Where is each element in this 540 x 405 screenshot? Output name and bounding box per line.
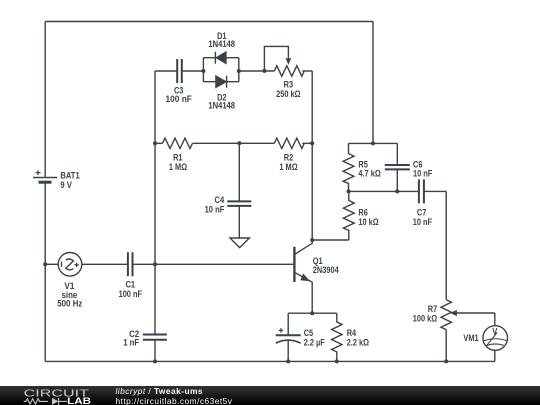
wire R6 bottom to collector node [312,239,349,241]
junction C6 bottom [395,189,399,193]
wire C3 to diode box [182,70,203,72]
wire V1 to C1 [82,263,128,265]
footer bar [0,386,540,405]
wire right riser to R5 row [372,22,374,144]
source V1 [58,252,82,276]
svg-text:R1: R1 [173,152,183,162]
junction Q1 emitter node [310,311,314,315]
svg-text:100 nF: 100 nF [166,94,193,104]
wire R3 right [302,70,312,72]
wire C4 branch top [238,143,240,201]
svg-text:2.2 kΩ: 2.2 kΩ [347,337,369,347]
potentiometer R3 [274,66,304,76]
svg-text:10 nF: 10 nF [413,168,433,178]
wire C6 stubs [396,143,398,191]
junction V1 tap on left rail [43,262,47,266]
svg-text:9 V: 9 V [60,180,72,190]
svg-text:4.7 kΩ: 4.7 kΩ [358,168,380,178]
junction R7 bottom rail [444,359,448,363]
svg-text:2N3904: 2N3904 [313,265,339,275]
diode D1 [215,52,226,64]
capacitor C3 [177,59,182,83]
junction R4 bottom rail [335,359,339,363]
junction R2 right / riser [310,141,314,145]
wire V1 row left [45,263,58,265]
wire riser C7 to R7 [445,191,447,299]
svg-text:R7: R7 [428,304,438,314]
voltmeter VM1 [483,326,508,351]
arrow R7 wiper [450,310,457,316]
footer text libcrypt / Tweak-ums and url [116,386,233,405]
junction C2 bottom rail [153,359,157,363]
svg-text:R2: R2 [284,152,294,162]
capacitor C5 [276,313,301,361]
battery BAT1 [33,170,57,182]
wire left rail lower [44,184,46,362]
svg-text:100 kΩ: 100 kΩ [413,314,437,324]
resistor R1 [163,138,193,148]
potentiometer R7 [441,300,451,330]
wire R7 bottom [445,330,447,362]
svg-text:V: V [492,327,498,338]
wire emitter row [288,312,337,314]
wire R7 wiper lead [457,312,495,314]
wire bottom rail [45,360,495,362]
wire VM1 top stub [494,313,496,326]
ground [230,238,249,248]
wire top rail [45,21,373,23]
wire VM1 bottom stub [494,350,496,361]
junction diode box right [237,69,241,73]
svg-text:1 MΩ: 1 MΩ [169,162,187,172]
wire diode box frame [203,58,238,82]
svg-text:1N4148: 1N4148 [208,39,235,49]
transistor Q1 [294,240,312,313]
capacitor C2 [143,335,167,340]
svg-text:100 nF: 100 nF [119,289,143,299]
wire row R1 R2 [155,142,312,144]
wire riser R3/R2 to Q1 collector [311,71,313,240]
diode D2 [216,76,227,88]
wire C1 to Q1 base [133,263,293,265]
svg-text:1 nF: 1 nF [123,338,140,348]
capacitor C7 [419,179,424,203]
wire diode box to R3 [239,70,274,72]
svg-text:10 kΩ: 10 kΩ [358,217,378,227]
svg-text:LAB: LAB [67,396,92,405]
resistor R6 [343,191,354,240]
logo CIRCUIT LAB [20,386,140,405]
svg-text:10 nF: 10 nF [413,217,433,227]
svg-text:250 kΩ: 250 kΩ [276,89,300,99]
junction C5 bottom rail [286,359,290,363]
capacitor C4 [227,201,251,206]
wire row C7 [349,190,447,192]
arrow R3 wiper [286,58,292,65]
wire left rail upper [44,22,46,177]
wire R3 wiper loop [264,46,288,71]
wire riser x155 upper [154,71,156,334]
wire row R5 top [349,142,398,144]
junction R1 row / riser [153,141,157,145]
svg-text:1N4148: 1N4148 [208,101,235,111]
resistor R5 [343,143,354,191]
junction R5 bottom / R6 top [347,189,351,193]
svg-text:2.2 µF: 2.2 µF [304,337,326,347]
junction C1 / base row / riser [153,262,157,266]
junction Q1 collector node [310,238,314,242]
svg-text:1 MΩ: 1 MΩ [279,162,297,172]
junction diode box left [201,69,205,73]
wire C4 to ground [238,206,240,238]
wire riser x155 lower [154,340,156,362]
capacitor C6 [385,165,410,169]
capacitor C1 [128,252,133,276]
svg-text:BAT1: BAT1 [60,171,79,181]
junction R3 wiper loop [262,69,266,73]
resistor R4 [332,313,342,361]
junction C4 branch [237,141,241,145]
wire row C3 left [155,70,177,72]
svg-text:10 nF: 10 nF [205,204,225,214]
svg-text:VM1: VM1 [463,333,478,343]
svg-text:500 Hz: 500 Hz [57,298,83,308]
junction top rail riser / R5 row [371,141,375,145]
resistor R2 [274,138,304,148]
